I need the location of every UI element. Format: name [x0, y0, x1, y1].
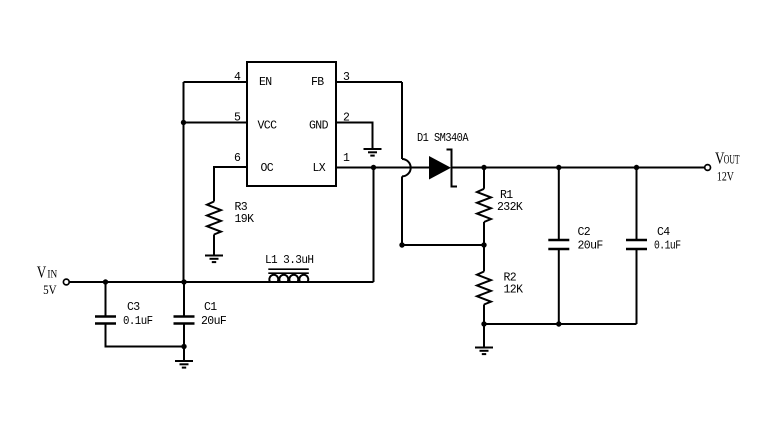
IC U1 box — [247, 62, 336, 186]
svg-text:D1 SM340A: D1 SM340A — [417, 132, 469, 145]
wire C3 bottom link — [106, 324, 185, 347]
svg-text:VCC: VCC — [258, 120, 278, 133]
svg-text:V: V — [37, 263, 47, 282]
svg-text:0.1uF: 0.1uF — [123, 315, 153, 328]
svg-text:232K: 232K — [497, 201, 523, 214]
junction node (C1 bottom) — [181, 344, 186, 349]
ground (below C1) — [175, 361, 193, 368]
wire LX to inductor riser — [373, 168, 375, 283]
svg-text:C1: C1 — [204, 301, 217, 314]
junction node (LX / inductor riser) — [371, 165, 376, 170]
ground (below GND pin) — [364, 149, 382, 156]
svg-text:2: 2 — [343, 112, 350, 125]
svg-text:4: 4 — [234, 71, 241, 84]
svg-text:C3: C3 — [127, 301, 140, 314]
wire hop over LX line — [402, 159, 411, 176]
junction node (R2 bottom) — [481, 321, 486, 326]
terminal VOUT — [705, 165, 711, 171]
wire R2 bottom lead — [483, 305, 485, 325]
ground (below R2) — [475, 348, 493, 355]
svg-text:0.1uF: 0.1uF — [654, 240, 681, 253]
svg-text:20uF: 20uF — [578, 240, 604, 253]
svg-text:OC: OC — [261, 162, 274, 175]
diode D1 cathode bar with schottky hooks — [447, 149, 458, 188]
resistor R3 — [207, 202, 221, 256]
inductor L1 core bars — [268, 269, 309, 273]
svg-text:12V: 12V — [717, 170, 734, 184]
junction node (R1 top / output rail) — [481, 165, 486, 170]
capacitor C4 — [626, 168, 647, 325]
wire R1 bottom lead — [483, 222, 485, 272]
wire left riser (EN/VCC to VIN node) — [183, 82, 185, 282]
svg-text:GND: GND — [309, 120, 329, 133]
svg-text:1: 1 — [343, 152, 350, 165]
capacitor C2 — [548, 168, 569, 325]
terminal VIN — [63, 279, 69, 285]
svg-text:5: 5 — [234, 112, 241, 125]
junction node (VCC tap on riser) — [181, 120, 186, 125]
inductor L1 coil — [269, 275, 308, 282]
svg-text:C4: C4 — [657, 226, 670, 239]
diode D1 triangle — [429, 156, 451, 180]
svg-text:3: 3 — [343, 71, 350, 84]
wire GND pin 2 — [336, 123, 373, 150]
svg-text:EN: EN — [259, 76, 272, 89]
svg-text:20uF: 20uF — [201, 315, 227, 328]
ground (below R3) — [205, 256, 223, 263]
junction node (C3 / VIN rail) — [103, 279, 108, 284]
resistor R1 — [477, 189, 491, 222]
svg-text:19K: 19K — [235, 213, 255, 226]
svg-text:LX: LX — [313, 162, 326, 175]
wire VCC pin 5 — [184, 122, 248, 124]
svg-text:IN: IN — [47, 267, 57, 281]
wire FB riser lower — [401, 176, 403, 245]
junction node (C1 / VIN rail) — [181, 279, 186, 284]
wire output rail — [452, 167, 705, 169]
wire C1 ground stub — [183, 347, 185, 362]
wire VIN rail — [69, 281, 373, 283]
junction node (R1-R2 midpoint) — [481, 242, 486, 247]
svg-text:6: 6 — [234, 152, 241, 165]
wire FB to divider midpoint — [402, 244, 484, 246]
capacitor C3 — [95, 282, 116, 324]
svg-text:OUT: OUT — [724, 153, 740, 167]
svg-text:C2: C2 — [578, 226, 591, 239]
wire FB riser upper — [401, 82, 403, 159]
junction node (C2 bottom) — [556, 321, 561, 326]
svg-text:5V: 5V — [43, 283, 57, 297]
wire bottom rail — [484, 323, 637, 325]
junction node (FB corner) — [399, 242, 404, 247]
svg-text:FB: FB — [311, 76, 324, 89]
resistor R2 — [477, 272, 491, 305]
wire R2 ground stub — [483, 324, 485, 348]
svg-text:12K: 12K — [504, 284, 524, 297]
junction node (C4 top) — [634, 165, 639, 170]
wire OC pin 6 — [214, 167, 247, 202]
wire FB pin 3 — [336, 81, 402, 83]
capacitor C1 — [174, 282, 195, 347]
junction node (C2 top) — [556, 165, 561, 170]
wire LX pin 1 — [336, 167, 429, 169]
svg-text:L1 3.3uH: L1 3.3uH — [265, 254, 314, 267]
wire divider riser R1-R2 — [483, 168, 485, 189]
wire EN pin 4 — [184, 81, 248, 83]
